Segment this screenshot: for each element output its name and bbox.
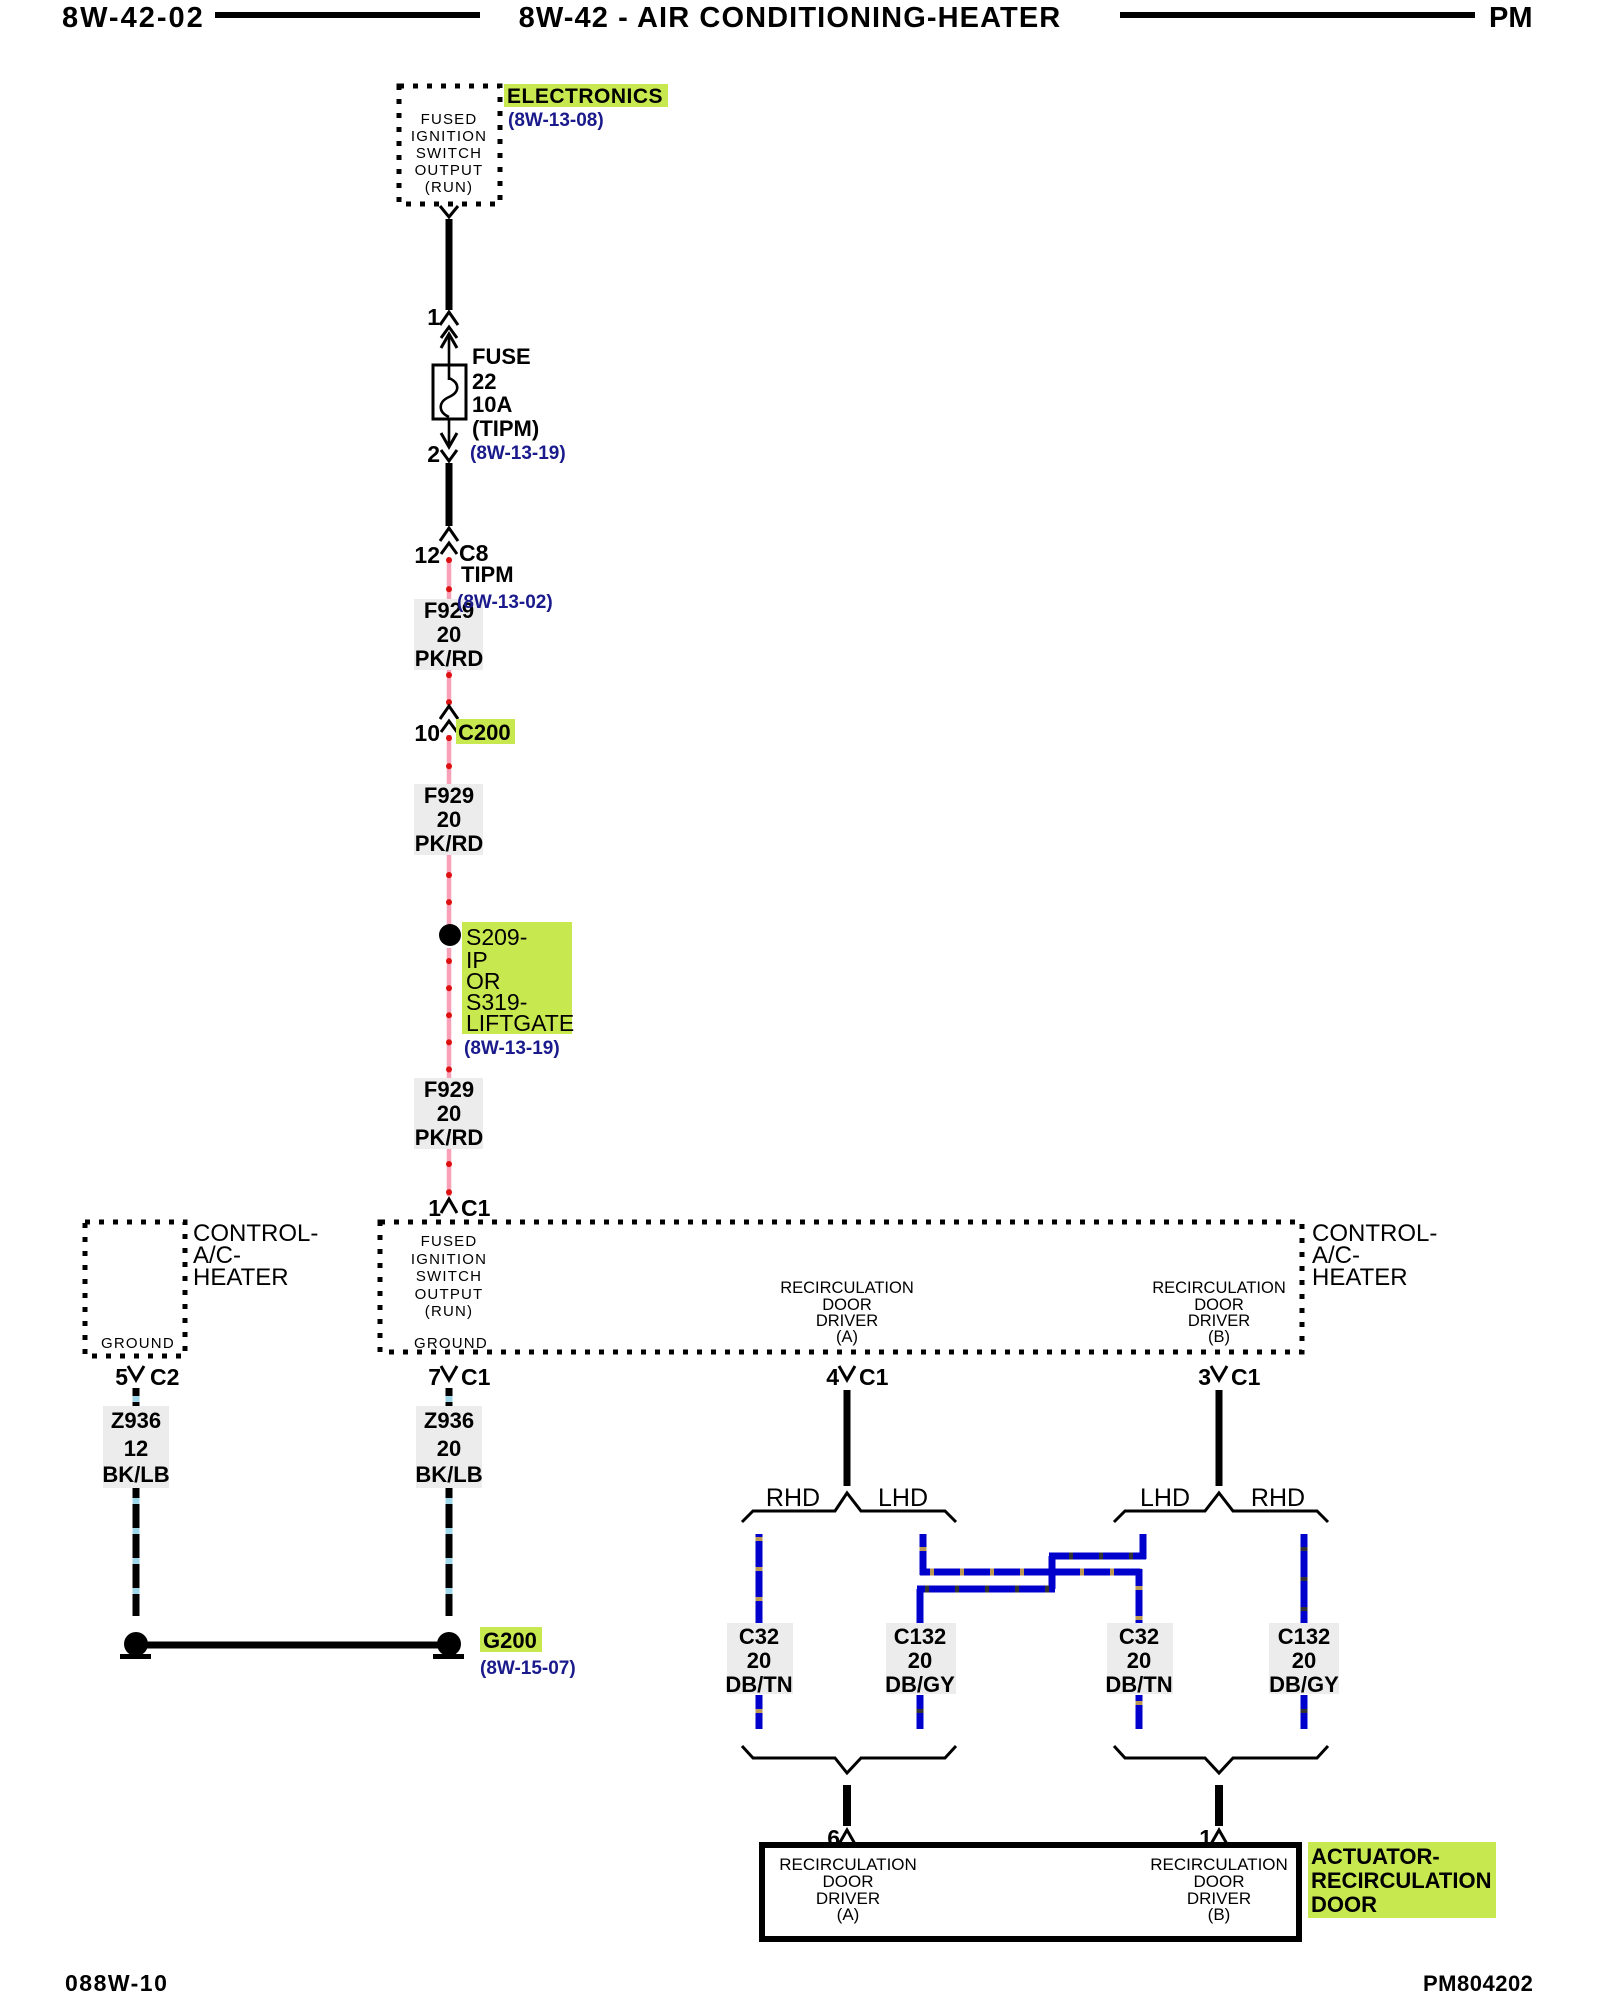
pin function RECIRCULATION DOOR DRIVER (A) actuator bbox=[779, 1855, 917, 1924]
svg-text:FUSE: FUSE bbox=[472, 344, 531, 369]
connector chevrons pin 12 C8 bbox=[440, 528, 458, 541]
svg-text:DB/GY: DB/GY bbox=[1269, 1672, 1339, 1697]
svg-text:ELECTRONICS: ELECTRONICS bbox=[507, 85, 663, 108]
pin function RECIRCULATION DOOR DRIVER (B) bbox=[1152, 1279, 1286, 1346]
pink wire F929 segment 3 bbox=[447, 735, 452, 786]
pin 5 C2 connector bbox=[115, 1364, 179, 1390]
ground G200 right terminal bbox=[437, 1632, 461, 1656]
svg-text:22: 22 bbox=[472, 369, 496, 394]
svg-text:RECIRCULATION: RECIRCULATION bbox=[1311, 1868, 1491, 1893]
svg-text:C32: C32 bbox=[1119, 1624, 1159, 1649]
svg-text:(8W-13-19): (8W-13-19) bbox=[464, 1038, 560, 1059]
wire from pin 4 C1 bbox=[844, 1390, 851, 1486]
electronics module box (FUSED IGNITION SWITCH OUTPUT RUN) bbox=[399, 86, 500, 204]
svg-text:BK/LB: BK/LB bbox=[102, 1462, 169, 1487]
svg-text:5: 5 bbox=[115, 1364, 128, 1390]
label G200 (highlighted) bbox=[480, 1627, 542, 1653]
svg-text:HEATER: HEATER bbox=[1312, 1264, 1408, 1291]
svg-text:2: 2 bbox=[427, 441, 440, 467]
svg-text:DB/GY: DB/GY bbox=[885, 1672, 955, 1697]
svg-text:IGNITION: IGNITION bbox=[411, 128, 487, 145]
svg-text:(8W-13-19): (8W-13-19) bbox=[470, 443, 566, 464]
svg-text:SWITCH: SWITCH bbox=[416, 145, 482, 162]
ground bus wire bbox=[136, 1642, 449, 1649]
svg-text:C1: C1 bbox=[461, 1364, 491, 1390]
control A/C-heater big dashed box bbox=[380, 1222, 1302, 1352]
svg-text:(8W-15-07): (8W-15-07) bbox=[480, 1658, 576, 1679]
wire Z936 20 BK/LB center upper bbox=[446, 1388, 453, 1407]
pin 4 C1 connector bbox=[826, 1364, 888, 1390]
label CONTROL-A/C-HEATER (right) bbox=[1312, 1220, 1437, 1291]
wire label Z936 20 BK/LB (center) bbox=[415, 1406, 482, 1488]
wire label F929 20 PK/RD (2) bbox=[414, 783, 483, 856]
svg-text:8W-42 - AIR CONDITIONING-HEATE: 8W-42 - AIR CONDITIONING-HEATER bbox=[519, 2, 1062, 34]
svg-text:DB/TN: DB/TN bbox=[725, 1672, 792, 1697]
svg-text:RECIRCULATION: RECIRCULATION bbox=[1152, 1279, 1286, 1297]
svg-text:(A): (A) bbox=[836, 1328, 858, 1346]
svg-text:10: 10 bbox=[414, 720, 440, 746]
svg-text:G200: G200 bbox=[483, 1628, 537, 1653]
connector chevrons pin 10 C200 bbox=[440, 706, 458, 719]
wire C132 far right lower bbox=[1301, 1695, 1308, 1729]
crossover lower horizontal DB/GY bbox=[917, 1586, 1055, 1593]
pink wire F929 segment 4 bbox=[447, 855, 452, 926]
pink wire F929 segment 2 bbox=[447, 670, 452, 705]
svg-text:088W-10: 088W-10 bbox=[65, 1970, 168, 1996]
svg-text:GROUND: GROUND bbox=[101, 1335, 175, 1352]
connector chevrons pin 1 bbox=[440, 312, 458, 325]
connector chevron pin 2 bbox=[441, 450, 457, 461]
variant brace upper right bbox=[1114, 1493, 1328, 1522]
svg-text:Z936: Z936 bbox=[424, 1408, 474, 1433]
svg-text:C132: C132 bbox=[894, 1624, 947, 1649]
svg-text:(TIPM): (TIPM) bbox=[472, 416, 539, 441]
label ACTUATOR-RECIRCULATION DOOR (highlighted) bbox=[1308, 1842, 1496, 1918]
svg-text:12: 12 bbox=[414, 542, 440, 568]
svg-text:(B): (B) bbox=[1208, 1328, 1230, 1346]
pin 7 C1 connector bbox=[428, 1364, 490, 1390]
svg-text:LHD: LHD bbox=[878, 1484, 928, 1512]
wire C32 center-right lower bbox=[1136, 1695, 1143, 1729]
wire C132 DB/GY far right upper bbox=[1301, 1534, 1308, 1624]
svg-text:PM: PM bbox=[1489, 2, 1533, 34]
svg-text:PK/RD: PK/RD bbox=[415, 831, 483, 856]
crossover top horizontal DB/GY bbox=[1049, 1553, 1146, 1560]
wire label C32 20 DB/TN (center-right) bbox=[1105, 1623, 1173, 1697]
wire from right brace LHD down bbox=[1140, 1534, 1147, 1559]
label ELECTRONICS (highlighted) bbox=[504, 84, 668, 108]
svg-text:SWITCH: SWITCH bbox=[416, 1268, 482, 1285]
connector C200 label (highlighted) bbox=[456, 719, 515, 745]
wire from pin 3 C1 bbox=[1216, 1390, 1223, 1486]
wire down to C132 label (left-center) bbox=[917, 1589, 924, 1623]
wire from electronics box to pin 1 bbox=[446, 219, 453, 310]
svg-text:IGNITION: IGNITION bbox=[411, 1251, 487, 1268]
svg-text:20: 20 bbox=[437, 622, 461, 647]
wire C32 DB/TN far left upper bbox=[756, 1534, 763, 1624]
svg-text:RHD: RHD bbox=[1251, 1484, 1305, 1512]
svg-text:(RUN): (RUN) bbox=[425, 1303, 474, 1320]
svg-text:12: 12 bbox=[124, 1436, 148, 1461]
pin function FUSED IGNITION SWITCH OUTPUT (RUN) bbox=[411, 1233, 487, 1320]
wire C132 center-left lower bbox=[917, 1695, 924, 1729]
svg-text:20: 20 bbox=[437, 1101, 461, 1126]
svg-text:PM804202: PM804202 bbox=[1423, 1971, 1533, 1996]
connector chevron pin 6 bbox=[839, 1830, 855, 1844]
wire label C132 20 DB/GY (right) bbox=[1269, 1623, 1339, 1697]
svg-text:(8W-13-08): (8W-13-08) bbox=[508, 110, 604, 131]
wire Z936 center lower bbox=[446, 1488, 453, 1616]
wire C132 DB/GY left top segment bbox=[920, 1534, 927, 1575]
ground G200 left terminal bbox=[124, 1632, 148, 1656]
wire down to C32 label (right-center) bbox=[1136, 1569, 1143, 1623]
pink wire F929 segment 1 bbox=[447, 558, 452, 601]
svg-text:TIPM: TIPM bbox=[461, 562, 514, 587]
splice S209 dot bbox=[439, 924, 461, 946]
fuse element curve bbox=[441, 378, 458, 417]
pink wire F929 segment 5 bbox=[447, 948, 452, 1080]
svg-text:F929: F929 bbox=[424, 783, 474, 808]
wire label F929 20 PK/RD (3) bbox=[414, 1077, 483, 1150]
svg-text:F929: F929 bbox=[424, 1077, 474, 1102]
pink wire F929 segment 6 bbox=[447, 1149, 452, 1196]
svg-text:LHD: LHD bbox=[1140, 1484, 1190, 1512]
svg-text:3: 3 bbox=[1198, 1364, 1211, 1390]
svg-text:RHD: RHD bbox=[766, 1484, 820, 1512]
variant brace lower left bbox=[742, 1746, 956, 1773]
connector chevron below electronics box bbox=[440, 206, 458, 217]
svg-text:1: 1 bbox=[428, 1195, 441, 1221]
svg-text:ACTUATOR-: ACTUATOR- bbox=[1311, 1844, 1440, 1869]
svg-text:20: 20 bbox=[437, 1436, 461, 1461]
svg-text:DOOR: DOOR bbox=[1311, 1892, 1377, 1917]
pin function RECIRCULATION DOOR DRIVER (A) bbox=[780, 1279, 914, 1346]
svg-text:20: 20 bbox=[908, 1648, 932, 1673]
svg-text:FUSED: FUSED bbox=[421, 1233, 478, 1250]
wire label C132 20 DB/GY (center-left) bbox=[885, 1623, 956, 1697]
variant brace lower right bbox=[1114, 1746, 1328, 1773]
svg-text:(RUN): (RUN) bbox=[425, 179, 474, 196]
svg-text:(8W-13-02): (8W-13-02) bbox=[457, 592, 553, 613]
svg-text:1: 1 bbox=[427, 304, 440, 330]
svg-text:OUTPUT: OUTPUT bbox=[415, 162, 484, 179]
svg-text:HEATER: HEATER bbox=[193, 1264, 289, 1291]
connector chevron pin 1 C1 bbox=[441, 1199, 457, 1213]
wire Z936 12 BK/LB left upper bbox=[133, 1388, 140, 1407]
svg-text:20: 20 bbox=[747, 1648, 771, 1673]
svg-text:PK/RD: PK/RD bbox=[415, 1125, 483, 1150]
svg-text:4: 4 bbox=[826, 1364, 839, 1390]
svg-text:8W-42-02: 8W-42-02 bbox=[62, 2, 205, 34]
svg-text:7: 7 bbox=[428, 1364, 441, 1390]
wire label C32 20 DB/TN (left) bbox=[725, 1623, 793, 1697]
control A/C-heater left dashed box bbox=[85, 1222, 185, 1356]
svg-text:20: 20 bbox=[1127, 1648, 1151, 1673]
svg-text:20: 20 bbox=[1292, 1648, 1316, 1673]
fuse F22 box bbox=[433, 365, 466, 419]
pin function RECIRCULATION DOOR DRIVER (B) actuator bbox=[1150, 1855, 1288, 1924]
connector chevron pin 1 (actuator) bbox=[1211, 1830, 1227, 1844]
svg-text:BK/LB: BK/LB bbox=[415, 1462, 482, 1487]
svg-text:C1: C1 bbox=[1231, 1364, 1261, 1390]
header left rule bbox=[215, 12, 480, 18]
svg-text:C32: C32 bbox=[739, 1624, 779, 1649]
svg-text:FUSED: FUSED bbox=[421, 111, 478, 128]
wire C32 far left lower bbox=[756, 1695, 763, 1729]
svg-text:PK/RD: PK/RD bbox=[415, 646, 483, 671]
svg-text:C200: C200 bbox=[458, 720, 511, 745]
crossover horizontal DB/TN bbox=[920, 1569, 1142, 1576]
splice label block (highlighted) bbox=[462, 922, 574, 1036]
svg-text:C132: C132 bbox=[1278, 1624, 1331, 1649]
svg-text:C1: C1 bbox=[859, 1364, 889, 1390]
svg-text:RECIRCULATION: RECIRCULATION bbox=[780, 1279, 914, 1297]
svg-text:20: 20 bbox=[437, 807, 461, 832]
svg-text:10A: 10A bbox=[472, 392, 512, 417]
actuator-recirculation door box bbox=[762, 1845, 1299, 1939]
svg-text:LIFTGATE: LIFTGATE bbox=[466, 1010, 574, 1036]
svg-text:OUTPUT: OUTPUT bbox=[415, 1286, 484, 1303]
wire pin2 to C8 bbox=[446, 463, 453, 526]
svg-text:(A): (A) bbox=[837, 1905, 860, 1924]
variant brace upper left bbox=[742, 1493, 956, 1522]
arrow up into fuse bbox=[441, 334, 457, 348]
svg-text:C2: C2 bbox=[150, 1364, 179, 1390]
svg-text:(B): (B) bbox=[1208, 1905, 1231, 1924]
arrow down out of fuse bbox=[448, 419, 451, 447]
wire Z936 left lower bbox=[133, 1488, 140, 1616]
wire label F929 20 PK/RD bbox=[414, 598, 483, 671]
svg-text:C1: C1 bbox=[461, 1195, 491, 1221]
header right rule bbox=[1120, 12, 1475, 18]
wire to actuator pin 1 bbox=[1215, 1785, 1223, 1826]
svg-text:DB/TN: DB/TN bbox=[1105, 1672, 1172, 1697]
wire to actuator pin 6 bbox=[843, 1785, 851, 1826]
label CONTROL-A/C-HEATER (left) bbox=[193, 1220, 318, 1291]
crossover jog vertical bbox=[1049, 1556, 1056, 1589]
svg-text:GROUND: GROUND bbox=[414, 1335, 488, 1352]
pin 3 C1 connector bbox=[1198, 1364, 1260, 1390]
wire label Z936 12 BK/LB (left) bbox=[102, 1406, 169, 1488]
svg-text:Z936: Z936 bbox=[111, 1408, 161, 1433]
